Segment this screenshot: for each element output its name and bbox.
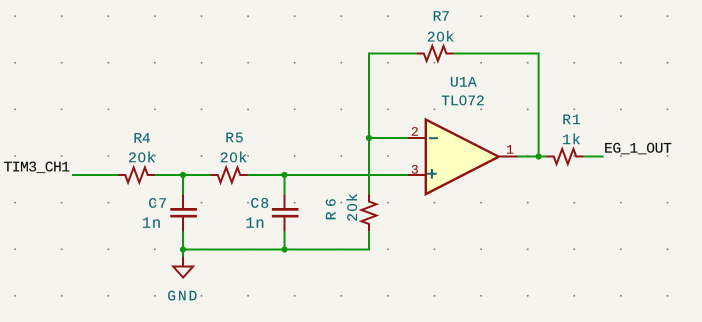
junction R5-pin3 / C8	[281, 172, 287, 178]
wire feedback top right down to output node	[454, 54, 539, 157]
wire C7 top	[182, 175, 184, 194]
wire op-amp output to R1	[518, 156, 547, 158]
wire ground bus to R6 bottom	[183, 231, 369, 249]
junction R4-R5 / C7	[180, 172, 186, 178]
op-amp U1A TL072	[426, 77, 499, 194]
wire TIM3_CH1 to R4	[72, 174, 118, 176]
junction C8 ground bus	[281, 246, 287, 252]
wire R1 to EG_1_OUT	[584, 156, 604, 158]
net label EG_1_OUT	[605, 143, 671, 154]
op-amp pin 2 (inverting input)	[408, 127, 438, 138]
wire R4 to R5	[155, 174, 211, 176]
wire R5 to op-amp pin 3	[248, 174, 409, 176]
op-amp pin 1 (output)	[499, 145, 518, 157]
net label TIM3_CH1	[4, 162, 69, 173]
wire C8 top	[284, 175, 286, 194]
op-amp pin 3 (non-inverting input)	[408, 165, 437, 179]
ground symbol GND	[168, 257, 197, 301]
junction C7 ground bus	[180, 246, 186, 252]
wire pin 2 to feedback node	[369, 137, 408, 139]
capacitor C7 1n	[143, 194, 197, 231]
resistor R4 20k	[118, 133, 155, 182]
resistor R1 1k (output)	[547, 115, 584, 165]
resistor R6 20k (vertical)	[326, 194, 377, 231]
wire C8 bottom	[284, 232, 286, 250]
junction output / R7	[536, 153, 542, 159]
resistor R7 20k (feedback)	[417, 11, 454, 61]
capacitor C8 1n	[246, 194, 298, 231]
wire GND stub	[182, 250, 184, 257]
wire C7 bottom	[182, 232, 184, 250]
wire vertical feedback left down to R6 top	[369, 54, 417, 195]
resistor R5 20k	[211, 133, 248, 183]
junction pin 2 feedback	[366, 135, 372, 141]
